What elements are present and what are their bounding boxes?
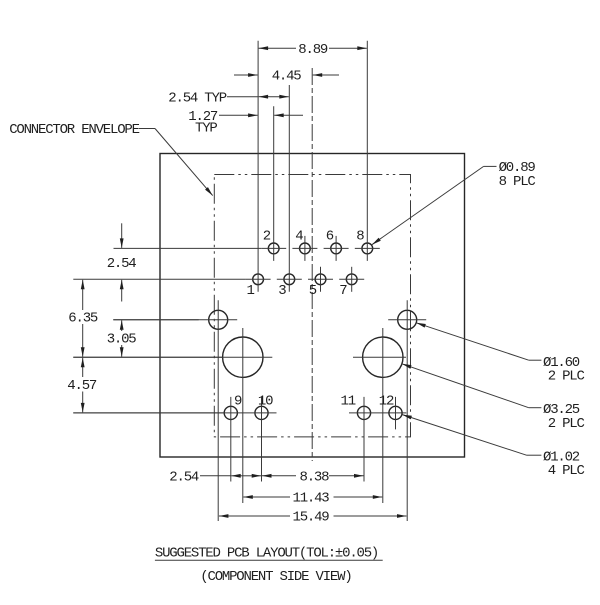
- hole left 1.60: [113, 300, 237, 521]
- dim 2.54 bottom: [169, 470, 261, 486]
- connector envelope phantom rectangle: [214, 175, 410, 437]
- hole 4 (0.89): [292, 236, 317, 261]
- dim 1.27 TYP top: [188, 109, 303, 137]
- dim 15.49 bottom: [219, 510, 407, 526]
- svg-text:12: 12: [379, 393, 394, 409]
- svg-text:3: 3: [278, 283, 286, 299]
- hole 12 (1.02): [389, 397, 402, 430]
- svg-text:2 PLC: 2 PLC: [548, 416, 585, 432]
- dim 11.43 bottom: [243, 491, 382, 507]
- svg-text:1: 1: [247, 283, 255, 299]
- hole left 3.25: [73, 328, 272, 503]
- leader 1.02 4 PLC: [402, 415, 584, 479]
- hole 5 (0.89): [308, 267, 333, 292]
- svg-text:2.54: 2.54: [107, 256, 137, 272]
- hole right 3.25: [353, 328, 406, 503]
- left dim extension row E: [73, 412, 224, 414]
- svg-text:8.38: 8.38: [300, 470, 330, 486]
- leader 3.25 2 PLC: [402, 364, 585, 432]
- leader 1.60 2 PLC: [416, 323, 584, 385]
- svg-text:2 PLC: 2 PLC: [548, 369, 585, 385]
- svg-text:7: 7: [339, 283, 347, 299]
- svg-text:4.57: 4.57: [67, 378, 97, 394]
- leader connector envelope: [9, 122, 213, 196]
- svg-text:2: 2: [263, 229, 271, 245]
- hole 8 (0.89): [355, 41, 380, 261]
- svg-text:8 PLC: 8 PLC: [499, 174, 536, 190]
- svg-text:11.43: 11.43: [293, 491, 330, 507]
- svg-text:5: 5: [309, 283, 317, 299]
- dim 8.38 bottom: [262, 470, 364, 486]
- hole 3 (0.89): [277, 85, 302, 292]
- svg-text:(COMPONENT SIDE VIEW): (COMPONENT SIDE VIEW): [200, 569, 351, 585]
- svg-text:8.89: 8.89: [298, 42, 328, 58]
- dim 4.45 top: [234, 69, 339, 85]
- row A extension line to left dims: [114, 247, 262, 249]
- svg-text:10: 10: [258, 393, 273, 409]
- svg-text:4: 4: [295, 229, 303, 245]
- part vertical centerline: [311, 68, 313, 461]
- hole right 1.60: [388, 300, 426, 521]
- leader 0.89 8 PLC: [372, 160, 536, 245]
- dim 4.57 left vertical: [67, 358, 97, 413]
- svg-text:SUGGESTED PCB LAYOUT(TOL:±0.05: SUGGESTED PCB LAYOUT(TOL:±0.05): [155, 546, 378, 562]
- dim 2.54 left vertical: [107, 223, 137, 301]
- svg-text:3.05: 3.05: [107, 331, 137, 347]
- svg-text:15.49: 15.49: [293, 510, 330, 526]
- svg-text:2.54 TYP: 2.54 TYP: [168, 91, 226, 107]
- left dim extension row C: [113, 319, 198, 321]
- svg-text:CONNECTOR ENVELOPE: CONNECTOR ENVELOPE: [9, 122, 139, 138]
- svg-text:9: 9: [234, 393, 242, 409]
- svg-text:2.54: 2.54: [169, 470, 199, 486]
- svg-text:8: 8: [356, 229, 364, 245]
- hole 1 (0.89): [246, 41, 271, 292]
- hole 2 (0.89): [261, 106, 286, 261]
- svg-text:4 PLC: 4 PLC: [548, 463, 585, 479]
- left dim extension row D: [73, 356, 222, 358]
- hole 11 (1.02): [349, 397, 406, 482]
- dim 2.54 TYP top: [168, 91, 288, 107]
- hole 10 (1.02): [73, 397, 276, 482]
- connector body outline: [160, 154, 465, 458]
- svg-text:6: 6: [326, 229, 334, 245]
- hole 7 (0.89): [339, 267, 364, 292]
- title SUGGESTED PCB LAYOUT: [155, 546, 383, 562]
- dim 3.05 left vertical: [107, 320, 137, 357]
- svg-text:4.45: 4.45: [272, 69, 302, 85]
- svg-text:6.35: 6.35: [68, 310, 98, 326]
- hole 6 (0.89): [324, 236, 349, 261]
- svg-text:11: 11: [341, 393, 356, 409]
- dim 8.89 top: [259, 42, 367, 58]
- dim 6.35 left vertical: [68, 280, 98, 357]
- svg-text:TYP: TYP: [195, 121, 217, 137]
- hole 9 (1.02): [224, 397, 237, 482]
- row B extension line to left dims: [73, 278, 245, 280]
